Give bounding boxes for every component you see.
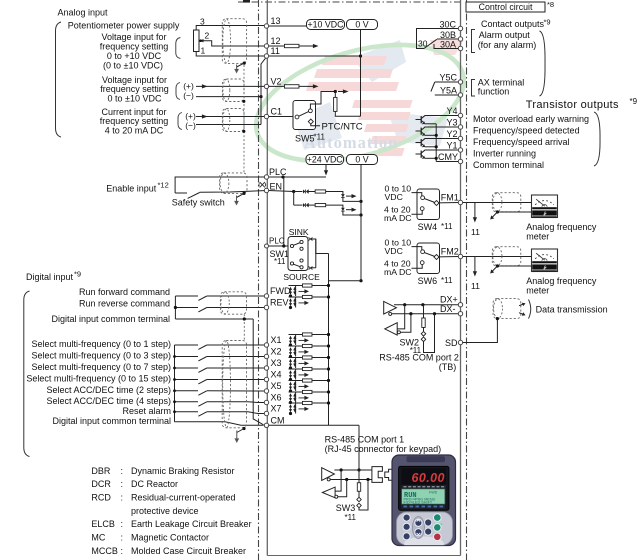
svg-text:Inverter running: Inverter running	[473, 148, 536, 158]
svg-text:X6: X6	[271, 393, 282, 403]
svg-text:Select multi-frequency (0 to 3: Select multi-frequency (0 to 3 step)	[31, 351, 171, 361]
svg-text:Transistor outputs: Transistor outputs	[526, 99, 619, 111]
svg-text:30: 30	[418, 38, 428, 48]
svg-text::: :	[121, 479, 124, 489]
svg-text:11: 11	[471, 227, 480, 237]
svg-text:(−): (−)	[183, 91, 194, 101]
svg-text:+10 VDC: +10 VDC	[308, 20, 345, 30]
svg-text:(0 to ±10 VDC): (0 to ±10 VDC)	[103, 61, 163, 71]
svg-text:Reset alarm: Reset alarm	[122, 406, 171, 416]
svg-text:Y5A: Y5A	[440, 85, 457, 95]
svg-text:Select ACC/DEC time (4 steps): Select ACC/DEC time (4 steps)	[46, 396, 171, 406]
svg-text:0 V: 0 V	[355, 155, 368, 165]
svg-text:(RJ-45 connector for keypad): (RJ-45 connector for keypad)	[325, 444, 442, 454]
svg-text:DX-: DX-	[440, 304, 456, 314]
svg-text:CM: CM	[271, 415, 285, 425]
svg-text:*9: *9	[630, 97, 638, 106]
svg-text:SINK: SINK	[289, 227, 309, 237]
svg-text:Select ACC/DEC time (2 steps): Select ACC/DEC time (2 steps)	[46, 385, 171, 395]
svg-text:REV: REV	[270, 298, 289, 308]
svg-text:12: 12	[271, 36, 281, 46]
svg-text:SD: SD	[445, 338, 458, 348]
svg-text:0 to ±10 VDC: 0 to ±10 VDC	[108, 94, 162, 104]
svg-text:Select multi-frequency (0 to 7: Select multi-frequency (0 to 7 step)	[31, 362, 171, 372]
svg-text:X7: X7	[271, 404, 282, 414]
svg-text:DCR: DCR	[91, 479, 111, 489]
svg-text:X1: X1	[271, 335, 282, 345]
svg-text:11: 11	[271, 46, 280, 56]
svg-text:SW3: SW3	[336, 503, 356, 513]
svg-text:Safety switch: Safety switch	[172, 198, 225, 208]
svg-text:0 to +10 VDC: 0 to +10 VDC	[107, 51, 162, 61]
svg-text:Earth Leakage Circuit Breaker: Earth Leakage Circuit Breaker	[131, 519, 252, 529]
svg-text:Control circuit: Control circuit	[479, 2, 533, 12]
svg-text:Analog input: Analog input	[58, 7, 109, 17]
svg-text:30C: 30C	[439, 19, 456, 29]
svg-text:meter: meter	[526, 285, 549, 295]
svg-text:Y2: Y2	[446, 129, 457, 139]
svg-text:(for any alarm): (for any alarm)	[478, 40, 537, 50]
svg-text::: :	[121, 533, 124, 543]
svg-text:Frequency/speed detected: Frequency/speed detected	[473, 125, 580, 135]
svg-text:(+): (+)	[183, 81, 194, 91]
svg-text:F/D⇒LED SHIFT: F/D⇒LED SHIFT	[404, 501, 433, 505]
svg-text:4 to 20 mA DC: 4 to 20 mA DC	[105, 126, 164, 136]
svg-text:MCCB: MCCB	[91, 546, 118, 556]
svg-text:V2: V2	[271, 77, 282, 87]
svg-text:DC Reactor: DC Reactor	[131, 479, 178, 489]
svg-text:13: 13	[271, 16, 281, 26]
svg-text:SOURCE: SOURCE	[283, 272, 320, 282]
svg-text:DBR: DBR	[91, 466, 111, 476]
svg-text:*9: *9	[544, 17, 551, 26]
svg-text:Motor overload early warning: Motor overload early warning	[473, 114, 589, 124]
svg-text:FWD: FWD	[270, 286, 291, 296]
svg-text:+24 VDC: +24 VDC	[307, 155, 344, 165]
svg-text:Run forward command: Run forward command	[79, 287, 170, 297]
svg-text:Frequency/speed arrival: Frequency/speed arrival	[473, 137, 570, 147]
svg-text:SW6: SW6	[418, 276, 438, 286]
svg-text:Digital input common terminal: Digital input common terminal	[51, 314, 170, 324]
svg-text:*8: *8	[547, 0, 554, 9]
svg-text:X3: X3	[271, 358, 282, 368]
svg-text:PLC: PLC	[269, 237, 285, 246]
svg-text:C1: C1	[271, 107, 283, 117]
svg-text::: :	[121, 519, 124, 529]
svg-text:*11: *11	[274, 257, 286, 266]
svg-text:Potentiometer power supply: Potentiometer power supply	[68, 20, 180, 30]
svg-text:X5: X5	[271, 381, 282, 391]
svg-text:Y4: Y4	[446, 106, 457, 116]
svg-text:Molded Case Circuit Breaker: Molded Case Circuit Breaker	[131, 546, 246, 556]
svg-text:Digital input common terminal: Digital input common terminal	[52, 416, 171, 426]
svg-text:Enable input: Enable input	[106, 183, 157, 193]
svg-text:Residual-current-operated: Residual-current-operated	[131, 493, 236, 503]
svg-text:FM2: FM2	[441, 247, 459, 257]
svg-text:Select multi-frequency (0 to 1: Select multi-frequency (0 to 1 step)	[31, 339, 171, 349]
svg-text:(TB): (TB)	[439, 362, 457, 372]
svg-text:PTC/NTC: PTC/NTC	[322, 121, 363, 132]
svg-text:Y3: Y3	[446, 118, 457, 128]
svg-text:Y5C: Y5C	[439, 72, 457, 82]
svg-text:Dynamic Braking Resistor: Dynamic Braking Resistor	[131, 466, 235, 476]
svg-text:SW5: SW5	[295, 133, 315, 143]
svg-text:Run reverse command: Run reverse command	[79, 299, 170, 309]
svg-text:VDC: VDC	[385, 246, 403, 256]
svg-text:*12: *12	[158, 180, 169, 189]
svg-text:30B: 30B	[440, 30, 456, 40]
svg-text:meter: meter	[526, 231, 549, 241]
svg-text:RS-485 COM port 2: RS-485 COM port 2	[379, 352, 459, 362]
svg-text:Alarm output: Alarm output	[479, 30, 531, 40]
svg-text:2: 2	[205, 31, 210, 41]
svg-text:FWD: FWD	[429, 491, 438, 495]
svg-text:mA DC: mA DC	[384, 213, 412, 223]
svg-text:(+): (+)	[185, 111, 196, 121]
svg-text:FM1: FM1	[441, 193, 459, 203]
svg-text::: :	[121, 546, 124, 556]
svg-text:ELCB: ELCB	[91, 519, 115, 529]
svg-text:mA DC: mA DC	[384, 267, 412, 277]
svg-text:EN: EN	[270, 181, 283, 191]
svg-text:Common terminal: Common terminal	[473, 160, 544, 170]
svg-text:SW4: SW4	[418, 222, 438, 232]
svg-text:VDC: VDC	[385, 192, 403, 202]
svg-text:Digital input: Digital input	[26, 272, 74, 282]
svg-text:11: 11	[471, 281, 480, 291]
svg-text:1: 1	[201, 46, 206, 56]
svg-text:protective device: protective device	[131, 506, 199, 516]
svg-text:X2: X2	[271, 347, 282, 357]
svg-text:Voltage input for: Voltage input for	[101, 32, 166, 42]
svg-text:*11: *11	[441, 276, 453, 285]
svg-text:Magnetic Contactor: Magnetic Contactor	[131, 533, 209, 543]
svg-text:30A: 30A	[440, 39, 456, 49]
svg-text:*11: *11	[314, 132, 326, 141]
svg-text::: :	[121, 493, 124, 503]
svg-text:function: function	[478, 87, 510, 97]
svg-text:(−): (−)	[185, 121, 196, 131]
svg-text:PLC: PLC	[269, 167, 287, 177]
svg-text:X4: X4	[271, 370, 282, 380]
svg-text:RCD: RCD	[91, 493, 111, 503]
svg-text:*11: *11	[441, 222, 453, 231]
svg-text:CMY: CMY	[438, 152, 458, 162]
svg-text:0 V: 0 V	[355, 20, 368, 30]
svg-text:Data transmission: Data transmission	[536, 304, 608, 314]
svg-text:Select multi-frequency (0 to 1: Select multi-frequency (0 to 15 step)	[26, 374, 171, 384]
svg-text:*9: *9	[74, 270, 81, 279]
svg-text:Y1: Y1	[446, 141, 457, 151]
svg-text:Contact outputs: Contact outputs	[481, 19, 545, 29]
svg-text:60.00: 60.00	[412, 471, 445, 485]
svg-text:*11: *11	[345, 513, 357, 522]
svg-text:MC: MC	[91, 533, 105, 543]
svg-text::: :	[121, 466, 124, 476]
